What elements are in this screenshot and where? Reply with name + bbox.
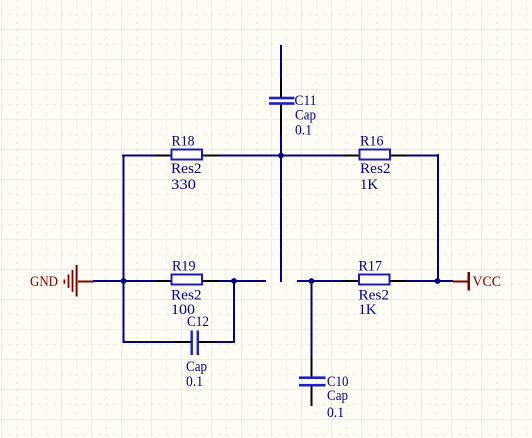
wire R18 to node A [203, 155, 219, 157]
resistor R17 [359, 275, 390, 285]
svg-text:R19: R19 [172, 259, 196, 275]
wire right vertical (R16 down to VCC row) [437, 154, 439, 282]
svg-text:1K: 1K [360, 177, 378, 193]
svg-text:R17: R17 [359, 259, 383, 275]
junction C10 node [309, 278, 315, 284]
svg-text:Res2: Res2 [360, 161, 391, 177]
svg-text:0.1: 0.1 [327, 405, 344, 421]
wire R19 to junction B [203, 280, 219, 282]
capacitor C12 [174, 331, 215, 356]
wire C12 right vertical up to junction B [233, 281, 235, 343]
svg-text:R18: R18 [172, 134, 195, 150]
wire C10 node down [311, 281, 313, 357]
wire C11 to node A [280, 135, 282, 156]
svg-text:Res2: Res2 [171, 161, 202, 177]
svg-text:C12: C12 [187, 314, 209, 330]
resistor R18 [172, 150, 203, 160]
resistor R16 [360, 150, 391, 160]
wire C12 row left [123, 341, 174, 343]
svg-text:GND: GND [30, 274, 58, 290]
wire top horizontal left (node A to R18) [122, 155, 156, 157]
wire top stub above C11 [280, 45, 282, 78]
wire R17 to VCC junction [391, 280, 407, 282]
wire junction to R19 [123, 280, 156, 282]
resistor R19 [172, 275, 203, 285]
wire C10 node to R17 [297, 280, 342, 282]
capacitor C11 [269, 78, 295, 135]
node A junction [278, 153, 284, 159]
wire center vertical (node A down, unconnected end) [280, 155, 282, 282]
svg-text:Cap: Cap [295, 107, 316, 123]
svg-text:330: 330 [171, 177, 196, 193]
wire left vertical (R18 down to C12 row) [123, 155, 125, 344]
svg-text:Cap: Cap [186, 359, 207, 375]
capacitor C10 [299, 357, 326, 406]
wire node A to R16 [281, 155, 344, 157]
junction GND node [121, 278, 127, 284]
svg-text:0.1: 0.1 [295, 123, 312, 139]
wire GND to junction [93, 280, 123, 282]
svg-text:0.1: 0.1 [186, 374, 203, 390]
svg-text:R16: R16 [360, 134, 384, 150]
junction VCC node [435, 278, 441, 284]
svg-text:VCC: VCC [473, 274, 502, 290]
svg-text:Cap: Cap [327, 388, 348, 404]
ground [64, 265, 95, 297]
junction B (R19/C12) [231, 278, 237, 284]
svg-text:1K: 1K [359, 302, 377, 318]
power VCC [453, 272, 470, 291]
wire R16 to right corner [391, 155, 407, 157]
wire C12 row right [215, 341, 234, 343]
